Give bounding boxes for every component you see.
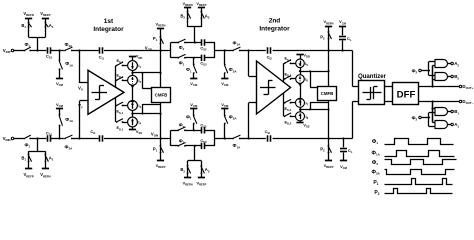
svg-text:1st: 1st <box>104 18 114 25</box>
svg-text:CMFB: CMFB <box>321 91 334 96</box>
svg-text:Quantizer: Quantizer <box>358 73 387 80</box>
svg-text:Integrator: Integrator <box>93 26 124 33</box>
svg-text:Integrator: Integrator <box>259 26 290 33</box>
svg-text:CMFB: CMFB <box>155 93 168 98</box>
svg-text:DFF: DFF <box>397 89 416 100</box>
svg-text:2nd: 2nd <box>269 18 281 25</box>
